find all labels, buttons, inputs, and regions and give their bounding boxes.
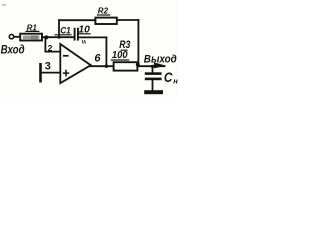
wire C1 to corner [79,36,107,38]
capacitor Cn plates [145,72,162,75]
wire input to R1 [14,36,20,38]
ground (Cn) [144,90,163,94]
svg-text:С1: С1 [60,24,71,35]
wire R2 branch drop [137,20,139,64]
resistor R1 [20,34,42,41]
wire op-amp output [91,65,114,67]
svg-text:Выход: Выход [144,54,177,66]
plus sign [63,70,69,77]
op-amp U1 triangle [60,44,91,83]
svg-text:Вход: Вход [1,45,25,57]
input terminal circle [9,34,13,38]
scan smudge inside R1 [23,36,39,40]
wire R1 to C1 [42,36,74,38]
minus sign [63,55,69,57]
wire top left to R2 [59,19,96,21]
node riser junction dot [58,36,61,39]
capacitor C1 plates [75,28,78,41]
svg-text:3: 3 [45,60,51,72]
svg-text:н: н [173,77,178,86]
resistor R2 [95,18,116,24]
background [0,0,179,98]
node B junction dot (C1 to output) [105,65,108,68]
wire drop to Cn [152,66,154,72]
wire pin2 drop [44,37,46,51]
node A junction dot [44,35,48,39]
wire R2 to corner [117,19,139,21]
svg-text:2: 2 [48,43,53,53]
wire C1 branch drop [105,37,107,66]
wire R3 to arrow [138,65,165,67]
resistor R3 [114,62,138,70]
wire Cn to ground [152,80,154,90]
ground (pin3) [39,63,42,83]
svg-text:6: 6 [94,52,101,64]
wire riser to R2 [58,20,60,37]
scan mark above op-amp [82,40,85,44]
svg-text:R2: R2 [98,6,109,15]
wire pin3 [41,72,61,74]
node D junction dot (Cn tap) [151,65,154,68]
node C junction blob (R2 to R3 right) [136,63,140,67]
wire pin2 horizontal [45,51,60,53]
scan noise dash top-left [2,4,6,5]
output arrow [154,62,166,68]
svg-text:С: С [164,69,173,85]
svg-text:100: 100 [112,49,128,61]
